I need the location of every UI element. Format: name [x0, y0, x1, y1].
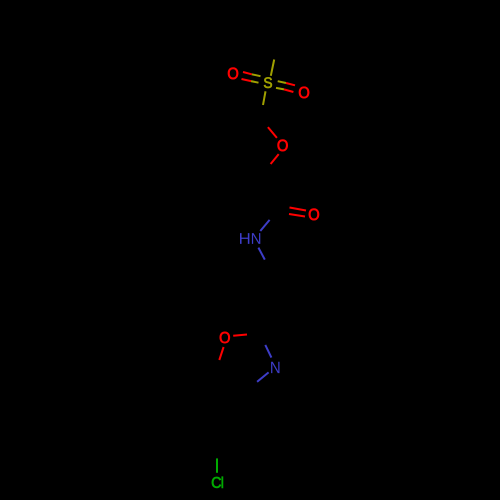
double bond C=O4 upper line red half — [290, 208, 307, 211]
bond O3-C up-left red half — [268, 127, 277, 138]
oxygen O2 label (right sulfonyl O) — [299, 87, 309, 99]
oxygen O5 label (oxazole O) — [220, 332, 230, 343]
bond N2-C2' blue half up-left — [265, 345, 271, 358]
bond S1-C2 sulfur-colored half — [263, 91, 266, 105]
bond O3-C down-left red half — [271, 154, 279, 164]
oxygen O3 label (ether O) — [278, 140, 288, 152]
amide H label of HN — [240, 233, 249, 244]
double bond S1=O2 upper line sulfur half — [278, 81, 286, 83]
double bond C=O4 lower line red half — [289, 214, 305, 217]
bond C-Cl green half — [216, 458, 218, 472]
amide N label of HN — [252, 233, 260, 244]
bond O5-C2' red half to the right — [233, 335, 247, 336]
bond N-CH2 blue half — [258, 248, 264, 260]
bond S1-CH3 sulfur-colored half — [271, 60, 274, 76]
double bond S1=O1 lower line sulfur half — [251, 81, 259, 83]
bond N-C(=O) blue half — [260, 220, 269, 231]
oxygen O1 label (left sulfonyl O) — [228, 68, 238, 80]
chlorine Cl label, C glyph — [212, 477, 221, 488]
oxazole nitrogen N2 label — [271, 362, 279, 373]
double bond S1=O2 upper line red half — [286, 83, 295, 85]
oxygen O4 label (amide carbonyl O) — [309, 209, 319, 221]
double bond S1=O2 lower line red half — [284, 89, 293, 92]
chlorine Cl label, l glyph — [222, 477, 223, 488]
double bond S1=O1 lower line red half — [242, 79, 252, 81]
double bond S1=O2 lower line sulfur half — [276, 88, 284, 90]
bond N2-C3a blue half down-left — [257, 372, 269, 381]
double bond S1=O1 upper line sulfur half — [252, 74, 261, 76]
double bond S1=O1 upper line red half — [243, 72, 252, 74]
bond O5-C7a red half down-left — [219, 347, 223, 360]
sulfur S1 label — [264, 77, 272, 88]
